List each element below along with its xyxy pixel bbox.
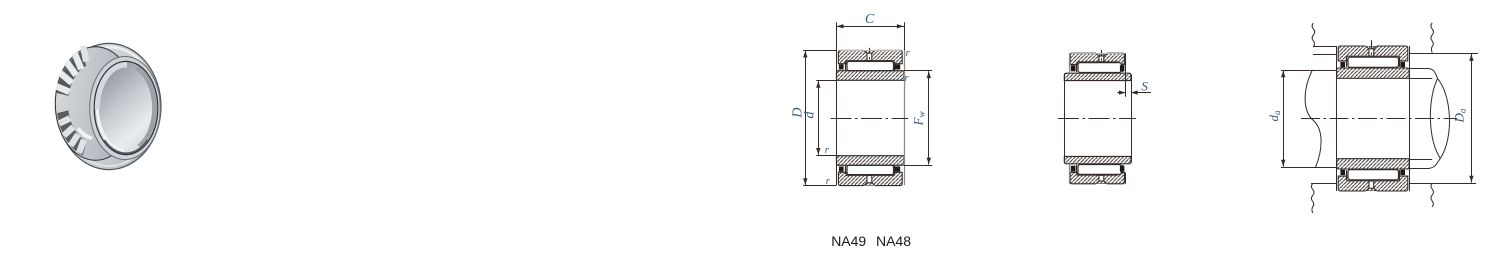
shaft surface line (bottom left) (1281, 167, 1337, 169)
light top edge of outer ring (scan artefact), figure 1 (840, 50, 902, 52)
dimension d (802, 81, 838, 156)
svg-text:C: C (865, 12, 875, 27)
inner ring section (top) (1337, 68, 1410, 78)
needle rollers and cage (bottom) (1347, 170, 1400, 180)
oil hole (top) (1366, 40, 1377, 56)
light top edge of outer ring (scan artefact), figure 2 (1072, 53, 1124, 55)
housing bore line (top left) (1313, 46, 1337, 48)
photo: outer ring OD bright band (67, 47, 151, 77)
photo: inner ring front face (90, 57, 161, 160)
dimension da (1266, 70, 1285, 166)
inner ring section (top) (1064, 73, 1131, 80)
shaft break S-curve (left) (1305, 70, 1321, 167)
dimension D (790, 50, 836, 185)
svg-text:d: d (802, 111, 817, 119)
needle rollers and cage (top) (1347, 57, 1400, 67)
outer ring section (top) (838, 50, 902, 63)
outer ring section (bottom) (1338, 176, 1408, 191)
photo: cage slots (bottom-left, dark) (57, 110, 86, 155)
oil hole (bottom) (864, 176, 875, 187)
housing break squiggle (bottom right) (1431, 183, 1434, 207)
ring side face line (right) (1409, 46, 1411, 191)
needle rollers and cage (top) (846, 61, 895, 70)
figure 1: NA49/NA48 bearing cross-section with dimensions (790, 12, 932, 187)
dimension Da (1452, 54, 1474, 183)
centre axis line (1301, 118, 1457, 120)
needle rollers and cage (bottom) (846, 165, 895, 174)
svg-text:NA48: NA48 (876, 233, 911, 249)
shaft shoulder (right, bottom) (1409, 158, 1440, 168)
centre axis line (831, 118, 909, 120)
seal blocks (bottom) (839, 167, 900, 172)
shaft break leaf (right) (1430, 79, 1449, 159)
photo: bore lower rim shade (104, 140, 148, 153)
caption NA49 NA48 (831, 233, 911, 249)
photo: bore near-wall light band (upper-left) (96, 64, 127, 110)
housing shoulder line (bottom left) (1311, 183, 1337, 185)
seal blocks (top) (1340, 62, 1405, 67)
photo: cage slots (top-left, dark) (57, 51, 86, 96)
seal blocks (bottom) (1071, 166, 1125, 172)
needle rollers and cage (top) (1077, 63, 1123, 73)
ring side face line (right, extension for C) (904, 22, 906, 50)
housing break squiggle (bottom left) (1311, 183, 1314, 213)
shaft shoulder (right, top) (1409, 69, 1437, 79)
housing break squiggle (top left) (1312, 23, 1315, 47)
oil hole (bottom) (1366, 181, 1377, 192)
outer ring section (bottom) (1070, 172, 1124, 183)
svg-text:NA49: NA49 (831, 233, 866, 249)
outer ring side face line (right) (1125, 53, 1127, 97)
photo: needle rollers (top group) (56, 46, 86, 92)
centre axis line (1058, 118, 1136, 120)
dimension Fw (904, 71, 932, 166)
oil hole (top) (864, 48, 875, 61)
ring side face line (left) (1336, 46, 1338, 191)
dimension C (836, 12, 904, 28)
photo: bore interior (94, 61, 158, 154)
oil hole (bottom) (1096, 175, 1107, 184)
outer ring section (bottom) (838, 172, 902, 185)
oil hole (top) (1096, 50, 1107, 62)
outer ring side face line (left, grey) (1069, 53, 1071, 73)
dimension S (1117, 79, 1151, 95)
figure 3: mounted bearing with shaft and housing, da/Da dimensions (1266, 23, 1478, 213)
inner ring section (top) (836, 71, 904, 81)
photo: needle rollers (bottom group) (59, 118, 84, 153)
fillet radius labels r (825, 48, 911, 187)
housing shoulder line (bottom right) (1409, 183, 1476, 185)
photo: bore inner wall soft shade (right) (137, 67, 156, 148)
figure 2: bearing cross-section showing inner ring offset S (1058, 50, 1151, 185)
shaft surface line (top left) (1281, 70, 1337, 72)
outer ring section (top) (1338, 46, 1408, 61)
inner ring side face line (right) (1131, 75, 1133, 163)
photo: inner ring bright wedge (79, 130, 90, 138)
housing break squiggle (top right) (1431, 23, 1434, 53)
outer ring section (top) (1070, 53, 1124, 64)
seal blocks (top) (839, 64, 900, 69)
inner ring section (bottom) (1337, 159, 1410, 169)
housing shoulder line (top right) (1409, 53, 1478, 55)
inner ring section (bottom) (836, 156, 904, 166)
inner ring section (bottom) (1064, 156, 1131, 163)
photo: front face of outer ring (55, 47, 135, 161)
bearing photograph (55, 43, 161, 169)
photo: outer ring body (57, 43, 161, 169)
photo: outer ring bottom streak (68, 138, 150, 166)
inner ring side face line (left) (1064, 75, 1066, 163)
housing shoulder line (top left) (1313, 54, 1337, 56)
ring side face line (left) (836, 22, 838, 185)
seal blocks (bottom) (1340, 170, 1405, 175)
needle rollers and cage (bottom) (1077, 165, 1123, 175)
svg-text:S: S (1141, 79, 1148, 94)
seal blocks (top) (1071, 65, 1125, 71)
photo: bore highlight (bottom-left) (97, 110, 123, 151)
